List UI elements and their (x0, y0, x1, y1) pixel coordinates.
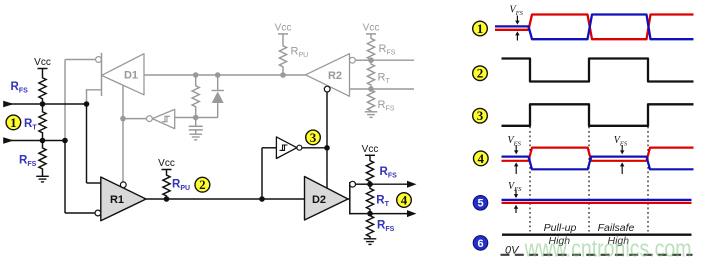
svg-text:1: 1 (477, 21, 484, 36)
schmitt inverter U1 (gray, points left) (152, 109, 174, 128)
row4 VFS label right (614, 135, 628, 147)
junction A at ladder (40, 101, 46, 107)
junction R2 ladder bottom (368, 86, 374, 92)
wire U2 output to D2 enable net (302, 147, 327, 149)
svg-text:Pull-up: Pull-up (544, 222, 577, 234)
resistor RFS bottom-left (39, 141, 46, 177)
wire line A to R1 noninverting input (87, 104, 101, 183)
wire U1 output to enable net (123, 118, 147, 120)
wire R2 ladder top to right (371, 59, 414, 61)
driver D1 output bar (101, 53, 103, 96)
svg-text:Vcc: Vcc (158, 158, 175, 169)
node 2 marker (195, 177, 210, 192)
label Failsafe (598, 222, 635, 234)
resistor RT of R2 ladder (367, 60, 374, 89)
row1 bus A red trace (495, 15, 694, 40)
waveform row 1 marker (473, 21, 488, 36)
junction on y=75 net at diode (215, 72, 221, 78)
label High 1 (548, 235, 570, 247)
resistor RT left (39, 104, 46, 141)
row5 VFS label (508, 181, 522, 193)
resistor RPU (gray pull-up of y=75 net) (279, 38, 286, 76)
svg-text:D2: D2 (312, 194, 326, 206)
wire D2 output to ladder (350, 213, 370, 215)
wire D1 input from R2 output (net y=75) (144, 74, 306, 76)
svg-text:6: 6 (477, 238, 483, 250)
dotted timeline 3 (647, 127, 649, 232)
resistor RT of output ladder (366, 184, 373, 213)
junction on enable net (120, 116, 126, 122)
row5 blue trace (502, 199, 692, 201)
bus line A with input arrowhead (3, 101, 86, 108)
label 0V (505, 245, 520, 257)
row4 VFS arrows left (514, 145, 518, 174)
junction R1 output at inverter tap (259, 196, 265, 202)
wire line B to R1 inverting input (65, 141, 95, 214)
resistor RFS bottom of R2 ladder (367, 89, 374, 112)
wire D1 output net down to line B (gray segment) (64, 60, 66, 141)
label Pull-up (544, 222, 577, 234)
label RFS output bottom (377, 219, 395, 233)
svg-text:D1: D1 (124, 69, 138, 81)
node 3 marker (306, 130, 321, 145)
resistor RPU pull-up (163, 172, 170, 199)
junction on y=75 net at RC resistor (193, 72, 199, 78)
row4 VFS label left (508, 135, 522, 147)
junction A at receiver tap (84, 101, 90, 107)
driver D2 inverted output bubble (350, 181, 356, 187)
svg-text:1: 1 (10, 115, 17, 130)
ground of output ladder (364, 239, 377, 245)
wire R2 noninverting input to ladder (350, 88, 372, 90)
waveform row 4 marker (474, 151, 489, 166)
output line Z with arrowhead (370, 210, 417, 217)
Vcc for D2 ladder (362, 144, 379, 158)
svg-text:3: 3 (310, 130, 317, 145)
junction B at receiver tap (62, 138, 68, 144)
row1 bus B blue trace (495, 15, 694, 40)
driver D1 (gray, points left) (102, 54, 145, 95)
row3 black trace (502, 104, 694, 126)
node 4 marker (397, 192, 412, 207)
row5 red trace (502, 202, 692, 204)
wire RC node horizontal (175, 117, 218, 119)
receiver R1 (points right) (101, 177, 146, 221)
svg-text:Vcc: Vcc (363, 22, 380, 33)
receiver R2 enable bubble (black) (324, 86, 330, 92)
label RFS gray bottom (378, 99, 395, 113)
dotted timeline 1 (529, 127, 531, 232)
wire R2 ladder bottom to right (371, 88, 414, 90)
resistor RFS top of R2 ladder (367, 38, 374, 61)
capacitor C of failsafe timer (189, 118, 203, 135)
svg-text:R2: R2 (328, 70, 342, 82)
svg-text:Vcc: Vcc (34, 57, 51, 68)
label RFS bottom-left (19, 155, 37, 169)
junction R1 output at RPU (164, 196, 170, 202)
junction on D2 enable net (324, 145, 330, 151)
junction on y=75 net at gray RPU (280, 72, 286, 78)
waveform row 2 marker (473, 66, 488, 81)
resistor RFS top-left (39, 73, 46, 105)
junction output ladder bottom (367, 211, 373, 217)
Vcc gray for R2 ladder (363, 22, 380, 37)
junction at RC node (193, 115, 199, 121)
label RPU (172, 179, 190, 193)
receiver R2 inverting input bubble (350, 57, 356, 63)
Vcc for left failsafe ladder (34, 57, 51, 73)
row4 red trace (502, 148, 694, 161)
label RFS output top (380, 166, 398, 180)
svg-text:2: 2 (199, 177, 206, 192)
bus line B with input arrowhead (3, 137, 65, 144)
svg-text:Failsafe: Failsafe (598, 222, 635, 234)
wire R2 inverting input to ladder (355, 59, 371, 61)
svg-text:www.cntronics.com: www.cntronics.com (524, 235, 692, 262)
dotted timeline 2 (588, 127, 590, 232)
label High 2 (607, 235, 629, 247)
svg-text:2: 2 (477, 66, 484, 81)
row1 VFS arrows (515, 16, 519, 41)
junction B at ladder (40, 138, 46, 144)
schmitt inverter U1 output bubble (147, 116, 153, 122)
driver D2 (points right) (305, 177, 349, 221)
wire enable net vertical D1 to R1 (122, 85, 124, 181)
ground of R2 ladder (365, 112, 378, 118)
watermark (524, 235, 692, 262)
resistor RFS top of output ladder (366, 158, 373, 184)
receiver R1 enable bubble (120, 182, 126, 188)
svg-text:4: 4 (401, 192, 408, 207)
row1 VFS label (510, 5, 524, 17)
schmitt inverter U2 (points right) (276, 137, 297, 159)
svg-text:3: 3 (477, 108, 484, 123)
wire D1 noninverted output to line A (87, 90, 102, 104)
diode of failsafe timer (points up) (212, 75, 224, 118)
junction R2 ladder top (368, 57, 374, 63)
svg-text:5: 5 (477, 198, 483, 210)
label RFS top-left (11, 81, 29, 95)
node 1 marker (6, 115, 21, 130)
wire R1 output to D2 input (146, 198, 305, 200)
waveform row 3 marker (473, 108, 488, 123)
resistor of failsafe RC timer (192, 75, 199, 118)
row2 black trace (502, 59, 694, 82)
svg-text:4: 4 (478, 151, 485, 166)
row4 blue trace (502, 157, 694, 170)
wire R2 enable to D2 enable (326, 92, 328, 188)
label RT output (376, 195, 389, 209)
Vcc gray for RPU (275, 22, 292, 37)
row6 high level trace (502, 234, 692, 236)
schmitt inverter U2 output bubble (297, 145, 302, 150)
row4 VFS arrows right (620, 145, 624, 174)
receiver R2 (gray, points left) (306, 54, 350, 97)
svg-text:Vcc: Vcc (275, 22, 292, 33)
svg-text:R1: R1 (110, 194, 124, 206)
ground below capacitor (189, 134, 202, 140)
wire D1 bubble output to net at x=65 (65, 59, 96, 61)
resistor RFS bottom of output ladder (366, 214, 373, 239)
label RT gray (378, 72, 391, 86)
wire inverter U2 input tap (262, 148, 276, 199)
label RPU gray (291, 46, 309, 60)
receiver R1 inverting input bubble (95, 210, 101, 216)
ground of left ladder (36, 176, 49, 182)
label RFS gray top (379, 43, 396, 57)
Vcc for RPU (158, 158, 175, 172)
driver D2 output bar (348, 182, 350, 215)
wire D2 bubble output to ladder (356, 183, 371, 185)
label RT left (24, 118, 37, 132)
junction output ladder top (367, 181, 373, 187)
row5 VFS arrows (514, 190, 518, 214)
row6 0V dashed reference line (501, 254, 693, 256)
waveform row 6 marker (473, 236, 488, 251)
svg-text:Vcc: Vcc (362, 144, 379, 155)
driver D1 inverted output bubble (96, 57, 102, 63)
output line Y with arrowhead (370, 181, 417, 188)
waveform row 5 marker (473, 196, 488, 211)
